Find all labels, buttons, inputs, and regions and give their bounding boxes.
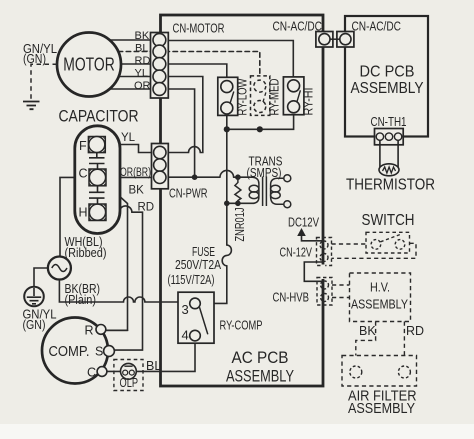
dashed wires CN-HVB to HV assembly [332,285,350,298]
terminal C [97,367,107,377]
svg-text:(Plain): (Plain) [65,292,97,307]
terminal R [96,325,106,335]
wire RD capacitor H to COMP S with hump [106,206,143,350]
svg-text:MOTOR: MOTOR [63,55,115,75]
wire YL motor to CN-MOTOR [119,76,154,78]
svg-text:RD: RD [138,202,155,214]
svg-text:AC PCB: AC PCB [232,349,289,367]
wire BK motor to CN-MOTOR [110,39,154,41]
svg-text:BL: BL [135,43,148,55]
switch dashed box [366,232,410,253]
junction dot relay common RY-MED [257,126,263,132]
svg-text:SWITCH: SWITCH [362,212,415,229]
svg-text:250V/T2A: 250V/T2A [175,257,221,272]
junction dot ZNR top [235,174,241,180]
switch contacts [371,240,381,250]
svg-text:(GN): (GN) [23,51,46,66]
svg-text:(Ribbed): (Ribbed) [65,245,107,260]
svg-text:OR: OR [134,80,151,92]
relay RY-MED (dashed) [251,76,270,116]
wire BL motor to CN-MOTOR (dashed) [118,51,154,53]
dashed wire BK jog [356,322,376,356]
svg-text:CN-HVB: CN-HVB [273,291,310,305]
OLP dashed box [114,360,143,391]
svg-text:ZNR01J: ZNR01J [233,208,247,242]
svg-text:S: S [95,345,103,359]
relay RY-HI [283,77,304,115]
AC source circle [48,257,71,280]
svg-text:BK: BK [359,324,376,338]
svg-text:H: H [79,206,88,220]
junction dot OR net [192,174,198,180]
wire BL net dashed to RY-MED [165,52,260,81]
wire OR net horizontal with hump over fuse line [165,170,254,177]
svg-text:H.V.: H.V. [370,280,390,295]
svg-text:BL: BL [146,359,161,373]
svg-text:RY-LOW: RY-LOW [236,78,250,115]
transformer secondary terminal top [284,175,291,182]
wire fuse to RY-COMP pin3 [200,266,226,304]
connector CN-MOTOR [151,33,169,99]
junction dot ZNR bottom [235,201,241,207]
fuse symbol [222,245,231,266]
svg-text:F: F [79,139,87,153]
svg-text:CN-MOTOR: CN-MOTOR [173,21,225,36]
wire YL net to CN-PWR with hump [155,77,203,153]
varistor ZNR01J [235,177,241,203]
svg-text:DC PCB: DC PCB [360,64,415,81]
svg-text:RY-MED: RY-MED [268,79,282,116]
compressor COMP [42,318,108,384]
svg-text:DC12V: DC12V [288,215,319,230]
wire DC12V arrow stem [302,235,323,241]
svg-text:ASSEMBLY: ASSEMBLY [226,368,294,386]
wire AC source to earth circle [34,268,48,287]
transformer TRANS(SMPS) primary winding [238,177,259,203]
svg-text:ASSEMBLY: ASSEMBLY [351,297,408,312]
svg-text:CN-TH1: CN-TH1 [371,115,407,129]
wire loop between CN-12V and CN-HVB [304,262,322,281]
svg-text:BK: BK [135,30,150,42]
wire between CN-AC/DC squares [330,38,340,40]
wire OR(BR) capacitor C to CN-PWR [106,176,155,178]
svg-text:C: C [87,366,96,380]
svg-text:(115V/T2A): (115V/T2A) [168,272,215,287]
terminal S [104,346,115,357]
svg-text:(SMPS): (SMPS) [247,165,282,180]
AC PCB assembly box [161,15,324,386]
wire OR motor to CN-MOTOR [110,88,154,90]
svg-text:CAPACITOR: CAPACITOR [59,107,139,126]
wire BK net to RY-HI [165,41,293,80]
ground dashed wire GN/YL [31,64,57,99]
junction dot relay common RY-LOW [224,126,230,132]
wire relay common line [227,113,294,130]
transformer secondary terminal bottom [284,201,291,208]
edge gap mask [321,265,325,280]
thermistor TH1 [380,140,398,167]
transformer secondary winding [271,178,284,204]
dashed wire RD [403,322,405,356]
svg-text:RD: RD [135,55,151,67]
DC PCB assembly box [345,16,428,137]
svg-text:THERMISTOR: THERMISTOR [346,177,435,194]
svg-text:3: 3 [182,302,189,317]
svg-text:YL: YL [135,68,148,80]
svg-text:OR(BR): OR(BR) [120,167,151,179]
wire RD motor to CN-MOTOR [121,63,154,65]
svg-text:BK: BK [129,185,145,197]
svg-text:YL: YL [121,132,136,144]
wire COMP R to vertical [106,329,128,331]
svg-text:RY-HI: RY-HI [302,88,316,116]
wire YL capacitor F to CN-PWR [105,145,154,153]
capacitor terminal C [89,169,106,186]
relay RY-LOW [218,77,238,115]
svg-text:ASSEMBLY: ASSEMBLY [351,80,424,97]
wire RD net to RY-LOW [165,64,227,81]
wire WH(BL) capacitor C to AC source [60,177,89,256]
svg-text:ASSEMBLY: ASSEMBLY [348,400,415,417]
svg-text:R: R [85,324,94,338]
OLP symbol [120,363,136,379]
capacitor plates C-H [89,186,105,204]
svg-text:CN-12V: CN-12V [280,246,313,260]
wire ZNR bottom horizontal [227,202,254,204]
dashed wire switch return to CN-12V lower [332,243,417,258]
air filter assembly dashed box [342,356,417,387]
transformer core [263,177,267,207]
junction dot fuse line / primary bottom [224,201,230,207]
capacitor terminal F [88,137,105,153]
svg-text:COMP.: COMP. [49,343,90,360]
connector CN-PWR [152,144,169,189]
connector CN-AC/DC square 2 [337,32,354,48]
capacitor terminal H [89,204,106,221]
svg-text:CN-AC/DC: CN-AC/DC [352,20,402,34]
ground symbol earth (top-left) [23,102,40,110]
capacitor body stadium [75,126,120,234]
relay RY-COMP [178,292,214,343]
dashed wire CN-12V to switch [332,243,367,245]
svg-text:RD: RD [406,324,424,338]
wire BK(BR) AC source to RY-COMP pin3 with humps [59,280,189,303]
connector CN-AC/DC square 1 [316,32,333,48]
svg-text:CN-AC/DC: CN-AC/DC [273,20,323,34]
svg-text:4: 4 [182,328,189,343]
earth circle symbol [24,287,44,307]
svg-text:(GN): (GN) [23,317,46,332]
svg-text:C: C [79,167,88,181]
H.V. assembly dashed box [350,273,411,322]
capacitor plates F-C [89,153,105,169]
motor M [57,33,121,97]
wire RY-COMP pin4 to OLP (BL) [136,341,195,372]
svg-text:CN-PWR: CN-PWR [169,186,208,201]
svg-text:OLP: OLP [120,376,139,390]
wire OR net vertical [165,89,195,177]
svg-text:RY-COMP: RY-COMP [220,319,263,333]
wire fuse line down [226,129,228,245]
wire BK capacitor C diagonal to COMP R [106,184,128,331]
wire OLP to COMP C [107,370,121,372]
